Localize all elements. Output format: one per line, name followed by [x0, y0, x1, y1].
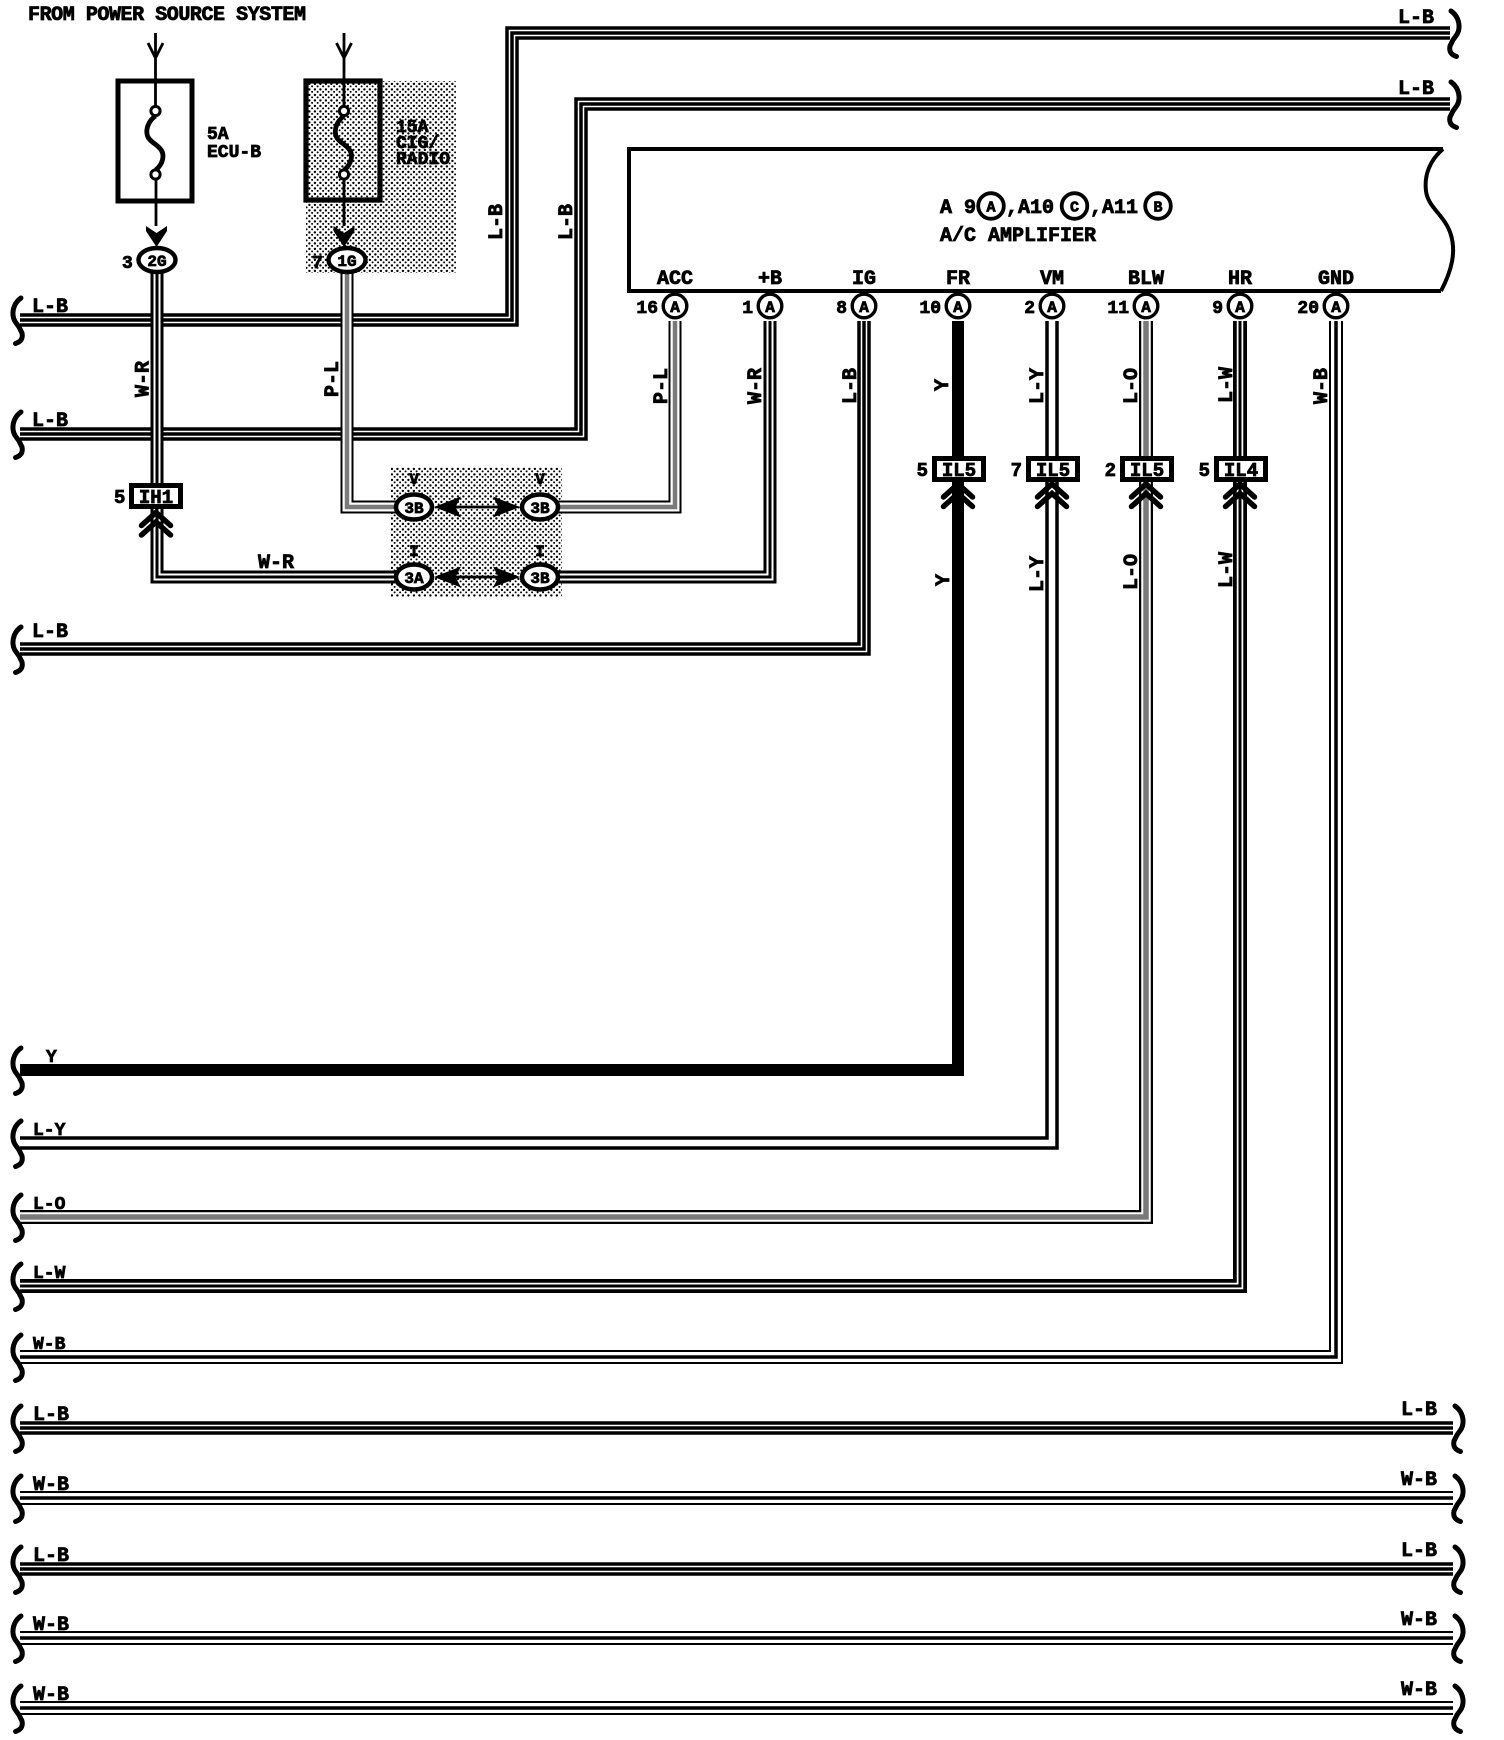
svg-text:W-B: W-B: [33, 1614, 69, 1637]
svg-text:B: B: [1153, 200, 1162, 217]
break symbol right bottom bus 4: [1454, 1616, 1463, 1662]
svg-text:RADIO: RADIO: [396, 150, 450, 170]
break symbol left L-O run: [13, 1195, 22, 1241]
svg-text:W-B: W-B: [1401, 1679, 1437, 1702]
svg-text:BLW: BLW: [1128, 268, 1164, 291]
break symbol right bottom bus 5: [1454, 1686, 1463, 1732]
wire: bottom bus 1 L-B full width: [20, 1421, 1453, 1435]
break symbol right bottom bus 1: [1454, 1406, 1463, 1452]
svg-text:FROM POWER SOURCE SYSTEM: FROM POWER SOURCE SYSTEM: [28, 4, 306, 27]
junction connector IL4 on HR wire: [1217, 459, 1266, 483]
svg-text:5: 5: [917, 460, 928, 482]
break symbol left bottom bus 1: [13, 1406, 22, 1452]
svg-text:L-B: L-B: [33, 1404, 69, 1427]
svg-text:I: I: [409, 543, 419, 561]
splice 3A row2 left: [396, 565, 432, 590]
svg-text:8: 8: [836, 299, 847, 319]
pin 16 circle A (ACC): [663, 294, 687, 318]
svg-text:A: A: [986, 200, 995, 217]
svg-text:2G: 2G: [147, 253, 166, 271]
svg-text:IH1: IH1: [139, 487, 173, 509]
break symbol left bottom bus 2: [13, 1476, 22, 1522]
svg-text:A/C AMPLIFIER: A/C AMPLIFIER: [940, 225, 1096, 248]
pin 1 circle A (+B): [758, 294, 782, 318]
wire: bottom bus 2 W-B full width: [20, 1491, 1453, 1505]
svg-text:L-B: L-B: [33, 1545, 69, 1568]
svg-text:2: 2: [1105, 460, 1116, 482]
svg-text:5: 5: [114, 487, 125, 509]
svg-text:L-B: L-B: [1398, 7, 1434, 30]
wire: bottom bus 5 W-B full width: [20, 1701, 1453, 1715]
svg-text:L-W: L-W: [1216, 367, 1239, 403]
break symbol left bus 3: [13, 627, 22, 673]
chevron under IL5 (VM): [1038, 484, 1067, 507]
break symbol left bus 1: [13, 298, 22, 344]
break symbol right bottom bus 2: [1454, 1476, 1463, 1522]
wire: L-B bus 3 from left break to IG pin 8: [20, 321, 864, 649]
svg-text:20: 20: [1297, 299, 1319, 319]
pin 9 circle A (HR): [1228, 294, 1252, 318]
svg-text:V: V: [535, 471, 545, 489]
svg-text:L-O: L-O: [1121, 368, 1144, 404]
break symbol left bottom bus 3: [13, 1547, 22, 1593]
junction connector IL5 on BLW wire: [1123, 459, 1172, 483]
svg-text:L-B: L-B: [1398, 78, 1434, 101]
svg-text:,A10: ,A10: [1006, 197, 1054, 220]
svg-text:1G: 1G: [337, 253, 356, 271]
svg-text:1: 1: [742, 299, 753, 319]
svg-text:W-B: W-B: [33, 1335, 66, 1355]
wire: P-L from splice 3B row 1 up to ACC pin 16: [558, 321, 675, 507]
svg-text:3A: 3A: [404, 570, 424, 588]
svg-text:GND: GND: [1318, 268, 1354, 291]
pin 10 circle A (FR): [946, 294, 970, 318]
break symbol left L-W run: [13, 1264, 22, 1310]
svg-text:,A11: ,A11: [1090, 197, 1138, 220]
pin 20 circle A (GND): [1324, 294, 1348, 318]
svg-text:L-B: L-B: [1401, 1399, 1437, 1422]
chevron under IH1: [142, 513, 171, 536]
svg-text:L-O: L-O: [33, 1195, 66, 1215]
break symbol left L-Y run: [13, 1121, 22, 1167]
arrow into fuse 2: [337, 33, 352, 106]
svg-text:P-L: P-L: [322, 361, 345, 397]
wire: bottom bus 4 W-B full width: [20, 1631, 1453, 1645]
svg-text:L-B: L-B: [840, 368, 863, 404]
break symbol right top run 1: [1450, 11, 1459, 57]
pin 8 circle A (IG): [852, 294, 876, 318]
fuse 5A ECU-B: [118, 81, 192, 226]
svg-text:11: 11: [1107, 299, 1129, 319]
svg-text:L-B: L-B: [1401, 1540, 1437, 1563]
svg-text:A 9: A 9: [940, 197, 976, 220]
chevron under IL5 (BLW): [1132, 484, 1161, 507]
svg-text:5A: 5A: [207, 125, 229, 145]
stipple behind fuse 15A CIG/RADIO: [306, 81, 456, 273]
svg-text:IL5: IL5: [942, 460, 976, 482]
svg-text:L-Y: L-Y: [1027, 556, 1050, 592]
svg-text:Y: Y: [46, 1048, 57, 1068]
wire: thick Y run from left break to FR pin 10: [20, 321, 958, 1070]
svg-text:L-O: L-O: [1121, 554, 1144, 590]
break symbol left bottom bus 4: [13, 1616, 22, 1662]
stipple behind splice group: [391, 467, 562, 597]
fuse 15A CIG/RADIO: [306, 81, 380, 226]
arrow into fuse 1: [148, 33, 163, 106]
wire: bottom bus 3 L-B full width: [20, 1562, 1453, 1576]
svg-text:L-W: L-W: [33, 1264, 66, 1284]
svg-text:IL5: IL5: [1036, 460, 1070, 482]
A/C amplifier box: [629, 149, 1453, 291]
svg-text:2: 2: [1024, 299, 1035, 319]
wire: L-O run from left break to BLW pin 11: [20, 321, 1146, 1217]
svg-text:FR: FR: [946, 268, 970, 291]
svg-text:W-B: W-B: [1311, 368, 1334, 404]
break symbol left Y run: [13, 1048, 22, 1094]
connector 1G: [329, 248, 366, 272]
svg-text:IL4: IL4: [1224, 460, 1258, 482]
pin 2 circle A (VM): [1040, 294, 1064, 318]
arrowhead into connector 1G: [334, 226, 355, 247]
amplifier title line 1: A 9 (A), A10 (C), A11 (B): [940, 193, 1171, 220]
splice 3B row1 left: [396, 495, 432, 520]
wire: W-R from splice 3B row 2 up to +B pin 1: [558, 321, 770, 577]
junction connector IL5 on FR wire: [935, 459, 984, 483]
svg-text:P-L: P-L: [651, 368, 674, 404]
junction connector IH1: [132, 486, 181, 510]
svg-text:W-B: W-B: [33, 1474, 69, 1497]
wire: horizontal L-B bus 1 with vertical riser and top run to right edge: [20, 33, 1450, 320]
break symbol right top run 2: [1450, 82, 1459, 128]
connector 2G: [139, 248, 176, 272]
break symbol right bottom bus 3: [1454, 1547, 1463, 1593]
svg-text:W-R: W-R: [258, 552, 294, 575]
svg-text:IL5: IL5: [1130, 460, 1164, 482]
svg-text:16: 16: [636, 299, 658, 319]
svg-text:HR: HR: [1228, 268, 1252, 291]
splice 3B row1 right: [522, 495, 558, 520]
break symbol left bottom bus 5: [13, 1686, 22, 1732]
svg-text:W-R: W-R: [745, 368, 768, 404]
svg-text:3B: 3B: [530, 570, 550, 588]
wire: P-L from connector 1G down to splice 3B row 1: [347, 272, 396, 507]
break symbol left W-B run: [13, 1335, 22, 1381]
arrowhead into connector 2G: [146, 226, 167, 247]
svg-text:W-B: W-B: [1401, 1469, 1437, 1492]
svg-text:Y: Y: [932, 379, 955, 391]
break symbol left bus 2: [13, 412, 22, 458]
svg-text:L-W: L-W: [1216, 552, 1239, 588]
svg-text:L-Y: L-Y: [1027, 368, 1050, 404]
svg-text:IG: IG: [852, 268, 876, 291]
svg-text:W-B: W-B: [1401, 1609, 1437, 1632]
svg-text:I: I: [535, 543, 545, 561]
svg-text:9: 9: [1212, 299, 1223, 319]
pin 11 circle A (BLW): [1134, 294, 1158, 318]
svg-text:W-R: W-R: [133, 361, 156, 397]
splice arrows row 1: [434, 497, 520, 518]
svg-text:L-B: L-B: [556, 204, 579, 240]
wire: W-R from connector 2G through IH1 down to splice 3A row 2: [157, 272, 396, 577]
svg-text:Y: Y: [933, 574, 956, 586]
svg-text:7: 7: [1011, 460, 1022, 482]
wire: horizontal L-B bus 2 with riser and top run 2: [20, 104, 1450, 434]
wire: L-W run from left break to HR pin 9: [20, 321, 1240, 1286]
svg-text:L-B: L-B: [32, 296, 68, 319]
svg-text:10: 10: [919, 299, 941, 319]
chevron under IL5 (FR): [944, 484, 973, 507]
wire: W-B run from left break to GND pin 20: [20, 321, 1336, 1357]
svg-text:+B: +B: [758, 268, 782, 291]
svg-text:3B: 3B: [404, 500, 424, 518]
svg-text:L-Y: L-Y: [33, 1121, 66, 1141]
svg-text:3B: 3B: [530, 500, 550, 518]
svg-text:7: 7: [312, 254, 323, 274]
wire: L-Y run from left break to VM pin 2: [20, 321, 1052, 1143]
chevron under IL4 (HR): [1226, 484, 1255, 507]
splice 3B row2 right: [522, 565, 558, 590]
svg-text:C: C: [1070, 200, 1079, 217]
svg-text:VM: VM: [1040, 268, 1064, 291]
svg-text:ECU-B: ECU-B: [207, 143, 261, 163]
svg-text:3: 3: [122, 254, 133, 274]
splice arrows row 2: [434, 567, 520, 588]
svg-text:ACC: ACC: [657, 268, 693, 291]
svg-text:5: 5: [1199, 460, 1210, 482]
svg-text:L-B: L-B: [32, 410, 68, 433]
svg-text:L-B: L-B: [486, 204, 509, 240]
svg-text:W-B: W-B: [33, 1684, 69, 1707]
junction connector IL5 on VM wire: [1029, 459, 1078, 483]
svg-text:L-B: L-B: [32, 621, 68, 644]
svg-text:V: V: [409, 471, 419, 489]
